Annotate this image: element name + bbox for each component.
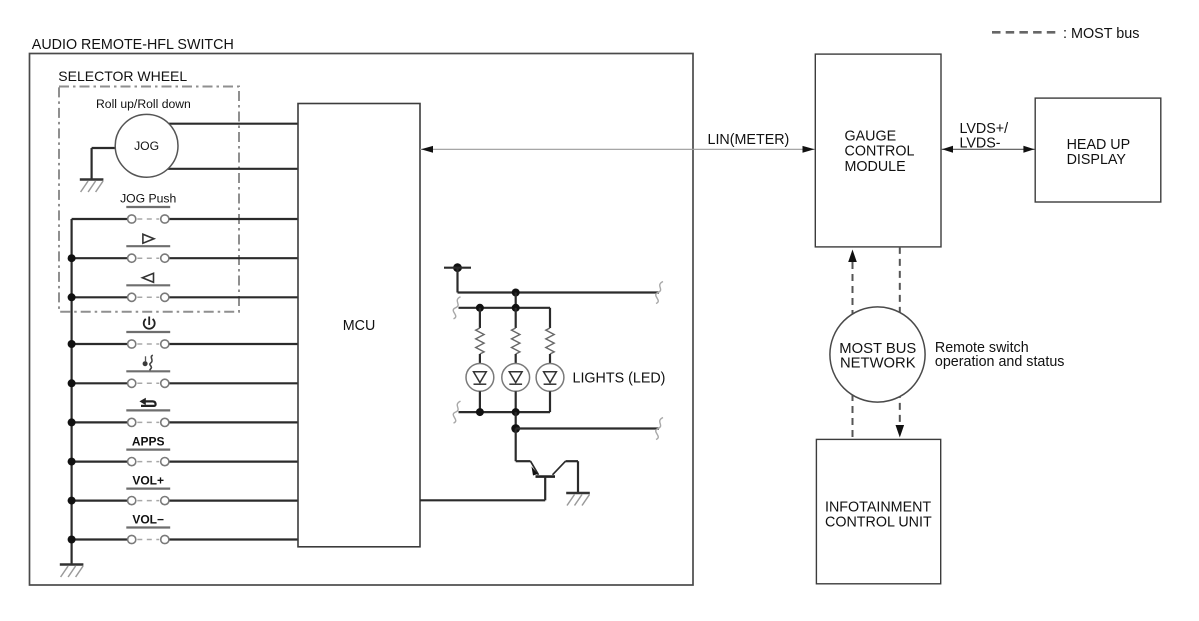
svg-text:MODULE: MODULE	[845, 159, 906, 175]
svg-text:INFOTAINMENT: INFOTAINMENT	[825, 499, 931, 515]
svg-text:NETWORK: NETWORK	[840, 355, 916, 371]
svg-text:MCU: MCU	[343, 318, 376, 334]
svg-text:CONTROL: CONTROL	[845, 144, 915, 160]
svg-text:Roll up/Roll down: Roll up/Roll down	[96, 97, 191, 111]
svg-text:: MOST bus: : MOST bus	[1063, 26, 1140, 42]
svg-text:VOL−: VOL−	[132, 513, 164, 527]
svg-text:VOL+: VOL+	[132, 474, 164, 488]
svg-text:AUDIO REMOTE-HFL SWITCH: AUDIO REMOTE-HFL SWITCH	[32, 37, 234, 53]
svg-text:LIGHTS (LED): LIGHTS (LED)	[573, 370, 666, 386]
svg-text:operation and status: operation and status	[935, 354, 1065, 370]
svg-text:LIN(METER): LIN(METER)	[708, 132, 790, 148]
svg-text:SELECTOR WHEEL: SELECTOR WHEEL	[58, 68, 187, 84]
svg-text:DISPLAY: DISPLAY	[1067, 152, 1127, 168]
svg-text:HEAD UP: HEAD UP	[1067, 137, 1131, 153]
svg-text:APPS: APPS	[132, 435, 165, 449]
svg-text:CONTROL UNIT: CONTROL UNIT	[825, 514, 932, 530]
svg-text:JOG: JOG	[134, 139, 159, 153]
svg-text:GAUGE: GAUGE	[845, 128, 897, 144]
svg-text:JOG Push: JOG Push	[120, 192, 176, 206]
